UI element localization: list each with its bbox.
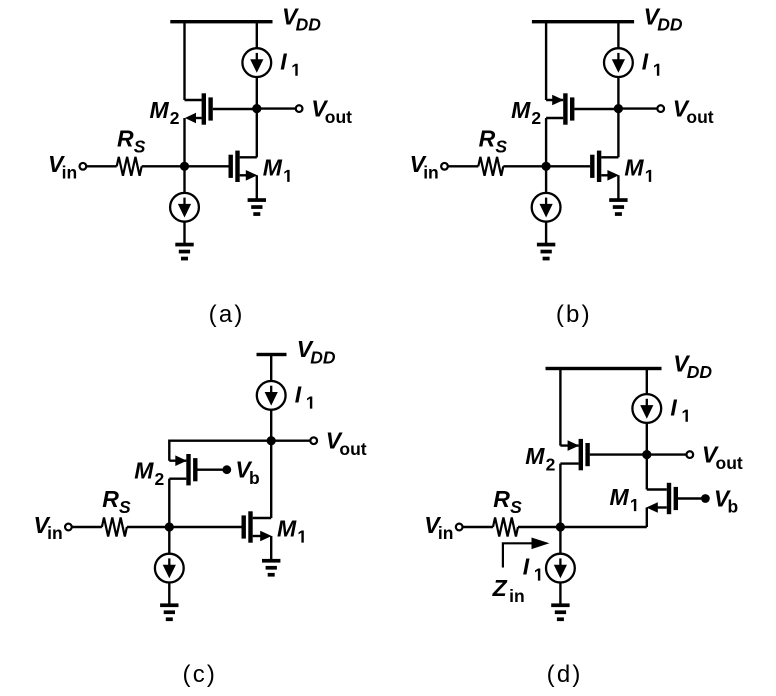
- wire input node down to tail current source: [545, 166, 547, 193]
- svg-text:R: R: [493, 486, 510, 512]
- wire resistor to node and M1 source: [518, 526, 647, 528]
- wire I1 to Vout node: [256, 77, 258, 109]
- wire M1 source to ground: [270, 536, 272, 560]
- terminal Vout: [296, 105, 303, 112]
- wire input node down to tail current source I1: [559, 527, 561, 554]
- wire M2 drain down to input node: [559, 464, 561, 527]
- wire I1 to Vout node: [617, 77, 619, 109]
- transistor M2: [560, 439, 589, 470]
- resistor RS: [102, 518, 127, 537]
- terminal Vout: [686, 451, 693, 458]
- ground below tail current source: [537, 243, 555, 261]
- svg-text:DD: DD: [310, 347, 336, 367]
- node input junction: [542, 162, 551, 171]
- svg-text:in: in: [438, 523, 454, 543]
- terminal Vout: [310, 437, 317, 444]
- svg-text:DD: DD: [687, 362, 713, 382]
- tail current source: [170, 193, 199, 222]
- svg-text:S: S: [495, 137, 507, 157]
- VDD rail: [532, 20, 634, 23]
- wire M2 gate to bias terminal: [198, 469, 223, 471]
- wire VDD rail to current source I1: [270, 355, 272, 382]
- svg-text:M: M: [525, 443, 545, 469]
- svg-text:S: S: [510, 497, 522, 517]
- svg-text:S: S: [119, 497, 131, 517]
- svg-text:2: 2: [155, 469, 165, 489]
- wire M2 source to input node: [183, 118, 185, 166]
- terminal Vin: [80, 163, 87, 170]
- wire tail current source to ground: [183, 222, 185, 244]
- wire I1 to Vout node: [270, 410, 272, 441]
- bias terminal Vb dot: [222, 465, 231, 474]
- svg-text:S: S: [134, 137, 146, 157]
- bias terminal Vb dot: [701, 494, 710, 503]
- wire input node down to tail current source: [168, 527, 170, 554]
- svg-text:2: 2: [531, 108, 541, 128]
- svg-text:I: I: [642, 49, 649, 75]
- wire Vin to resistor RS: [86, 165, 117, 167]
- svg-text:in: in: [62, 162, 78, 182]
- svg-text:(b): (b): [556, 301, 592, 328]
- VDD rail: [257, 353, 287, 356]
- transistor M1: [242, 511, 272, 542]
- wire resistor to M1 gate: [142, 165, 229, 167]
- wire VDD rail to current source I1: [617, 22, 619, 49]
- wire Vout node to output terminal: [618, 107, 657, 109]
- node Vout junction: [642, 450, 651, 459]
- wire M1 source to ground: [256, 175, 258, 199]
- svg-text:M: M: [511, 97, 531, 123]
- wire Vout node to output terminal: [257, 107, 296, 109]
- svg-text:M: M: [134, 458, 154, 484]
- wire VDD rail to current source I1: [646, 369, 648, 395]
- VDD rail: [170, 20, 272, 23]
- wire tail current source to ground: [559, 583, 561, 605]
- wire Vout node left to M2 drain branch: [169, 441, 271, 461]
- wire Vout node to output terminal: [271, 440, 310, 442]
- wire Vout node down to M1 drain: [646, 455, 648, 490]
- svg-text:M: M: [263, 155, 283, 181]
- svg-text:I: I: [670, 395, 677, 421]
- wire VDD rail to current source I1: [256, 22, 258, 49]
- wire M1 drain to Vout node: [256, 109, 258, 158]
- ground below M1: [262, 559, 280, 577]
- node Vout junction: [252, 104, 261, 113]
- svg-text:in: in: [423, 162, 439, 182]
- svg-text:I: I: [523, 553, 530, 579]
- current source I1: [257, 381, 286, 410]
- svg-text:out: out: [686, 107, 713, 127]
- svg-text:DD: DD: [657, 15, 683, 35]
- resistor RS: [478, 157, 503, 176]
- current source I1: [242, 48, 271, 77]
- node Vout junction: [614, 104, 623, 113]
- wire VDD rail to M2 source branch: [559, 369, 561, 446]
- svg-text:R: R: [117, 125, 134, 151]
- svg-text:M: M: [277, 515, 297, 541]
- wire VDD rail to M2 drain: [545, 22, 547, 100]
- svg-text:out: out: [325, 107, 352, 127]
- wire M2 gate to Vout node: [213, 108, 257, 110]
- svg-text:M: M: [624, 155, 644, 181]
- svg-text:in: in: [47, 523, 63, 543]
- wire Vin to resistor RS: [462, 526, 493, 528]
- resistor RS: [493, 518, 518, 537]
- transistor M1: [590, 151, 619, 182]
- wire M1 gate to bias terminal: [678, 497, 701, 499]
- svg-text:R: R: [102, 486, 119, 512]
- wire M1 source to ground: [617, 175, 619, 199]
- VDD rail: [546, 367, 662, 370]
- svg-text:I: I: [280, 49, 287, 75]
- wire I1 to Vout node: [646, 423, 648, 455]
- node Vout junction: [267, 436, 276, 445]
- current source I1: [604, 48, 633, 77]
- ground below tail current source: [160, 603, 178, 621]
- terminal Vin: [441, 163, 448, 170]
- svg-text:I: I: [295, 381, 302, 407]
- wire resistor to M1 gate: [127, 526, 242, 528]
- node input junction: [556, 522, 565, 531]
- terminal Vout: [657, 105, 664, 112]
- transistor M2: [169, 454, 197, 485]
- svg-text:out: out: [339, 439, 366, 459]
- svg-text:b: b: [249, 468, 260, 488]
- transistor M1: [646, 483, 678, 514]
- svg-text:(c): (c): [183, 661, 218, 688]
- svg-text:R: R: [479, 125, 496, 151]
- svg-text:M: M: [610, 484, 630, 510]
- node input junction: [165, 522, 174, 531]
- wire M1 drain up to Vout node: [270, 441, 272, 518]
- svg-text:2: 2: [170, 108, 180, 128]
- svg-text:(a): (a): [209, 301, 245, 328]
- svg-text:M: M: [150, 97, 170, 123]
- wire M1 source down to input node row: [646, 508, 648, 528]
- tail current source: [532, 193, 561, 222]
- svg-text:Z: Z: [492, 575, 508, 601]
- wire tail current source to ground: [168, 583, 170, 605]
- ground below tail current source: [551, 603, 569, 621]
- wire M2 gate to Vout node: [574, 108, 618, 110]
- wire Vin to resistor RS: [72, 526, 102, 528]
- wire M2 source down to input node: [168, 479, 170, 527]
- ground below M1: [609, 198, 627, 216]
- transistor M2: [185, 93, 213, 124]
- wire resistor to M1 gate: [503, 165, 590, 167]
- wire M2 gate to Vout node: [590, 453, 647, 455]
- transistor M1: [229, 151, 258, 182]
- wire VDD rail to M2 drain: [183, 22, 185, 100]
- svg-text:DD: DD: [296, 15, 322, 35]
- terminal Vin: [65, 524, 72, 531]
- svg-text:in: in: [509, 586, 525, 606]
- tail current source I1: [546, 554, 575, 583]
- node input junction: [180, 162, 189, 171]
- Zin impedance arrow: [503, 543, 534, 567]
- wire Vin to resistor RS: [448, 165, 479, 167]
- terminal Vin: [456, 524, 463, 531]
- ground below tail current source: [175, 243, 193, 261]
- transistor M2: [546, 93, 574, 124]
- svg-text:b: b: [728, 497, 739, 517]
- wire Vout node to output terminal: [647, 453, 687, 455]
- wire M1 drain to Vout node: [617, 109, 619, 158]
- resistor RS: [117, 157, 142, 176]
- svg-text:(d): (d): [547, 661, 583, 688]
- wire tail current source to ground: [545, 222, 547, 244]
- tail current source: [155, 554, 184, 583]
- ground below M1: [248, 198, 266, 216]
- wire M2 source to input node: [545, 118, 547, 166]
- current source I1: [632, 394, 661, 423]
- wire input node down to tail current source: [183, 166, 185, 193]
- svg-text:out: out: [716, 453, 743, 473]
- svg-text:2: 2: [546, 454, 556, 474]
